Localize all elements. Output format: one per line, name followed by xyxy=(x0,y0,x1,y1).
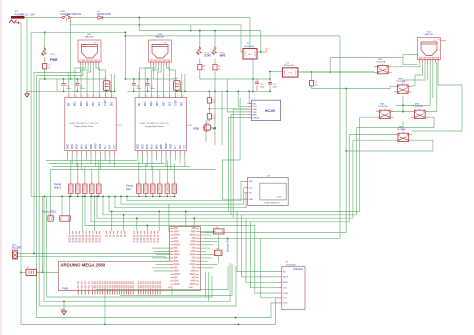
svg-text:TXD: TXD xyxy=(252,112,257,114)
resistor R4 xyxy=(207,98,216,104)
wire xyxy=(402,121,404,131)
junction xyxy=(214,30,216,32)
wire xyxy=(173,164,175,181)
wire xyxy=(205,272,207,297)
svg-text:GND: GND xyxy=(168,287,173,289)
junction xyxy=(82,196,84,198)
wire xyxy=(348,135,350,222)
junction xyxy=(133,90,135,92)
relay K2 xyxy=(283,62,298,77)
svg-text:STAT: STAT xyxy=(205,54,212,58)
wire colA pin xyxy=(154,270,171,272)
junction xyxy=(345,88,347,90)
svg-text:G5LE-14X: G5LE-14X xyxy=(284,65,295,67)
svg-text:EN: EN xyxy=(252,103,255,105)
wire xyxy=(125,78,176,80)
junction xyxy=(214,90,216,92)
wire xyxy=(412,140,433,151)
wire xyxy=(50,170,55,216)
svg-text:M1B: M1B xyxy=(147,144,149,149)
junction xyxy=(76,90,78,92)
wire colB pin xyxy=(199,260,208,262)
wire xyxy=(71,155,73,164)
junction xyxy=(184,90,186,92)
svg-text:STEP: STEP xyxy=(176,100,178,106)
capacitor C7 xyxy=(103,78,110,90)
fan module SG1 xyxy=(78,34,101,65)
junction xyxy=(214,127,216,129)
svg-text:Decay (DEC): Decay (DEC) xyxy=(42,210,56,213)
wire xyxy=(104,155,106,161)
wire xyxy=(261,238,278,297)
svg-text:BT: BT xyxy=(213,126,217,130)
svg-text:+12: +12 xyxy=(437,39,440,41)
junction xyxy=(102,196,104,198)
wire xyxy=(208,91,210,97)
svg-text:SLP: SLP xyxy=(110,144,112,149)
svg-text:FAN-3W: FAN-3W xyxy=(85,36,94,39)
wire xyxy=(87,65,91,94)
wire xyxy=(312,86,395,88)
wire xyxy=(206,119,209,123)
svg-text:LED1: LED1 xyxy=(50,54,56,56)
wire xyxy=(139,31,260,52)
wire xyxy=(71,25,244,52)
wire xyxy=(75,65,86,94)
label Decay (DEC) xyxy=(54,182,62,189)
wire K2 to SW2 xyxy=(298,71,374,73)
wire xyxy=(138,161,140,181)
junction xyxy=(237,90,239,92)
svg-text:100u: 100u xyxy=(150,88,154,90)
svg-text:TS-1187A: TS-1187A xyxy=(397,128,407,131)
svg-text:SCL: SCL xyxy=(249,193,253,195)
junction xyxy=(311,71,313,73)
wire xyxy=(138,72,140,94)
wire xyxy=(174,155,176,161)
wire xyxy=(238,91,247,106)
wire xyxy=(85,196,255,225)
svg-text:TST: TST xyxy=(114,144,116,149)
wire xyxy=(353,139,395,141)
wire colA pin xyxy=(152,267,171,269)
junction xyxy=(147,78,149,80)
junction xyxy=(209,108,211,110)
switch SW4 xyxy=(376,104,394,119)
svg-text:6: 6 xyxy=(171,96,172,98)
wire xyxy=(68,72,70,94)
wire xyxy=(114,155,116,167)
svg-text:HC-05: HC-05 xyxy=(265,109,275,113)
wire xyxy=(18,252,171,254)
wire xyxy=(218,235,220,251)
svg-text:OLED 128x64 I2C: OLED 128x64 I2C xyxy=(264,202,280,204)
wire xyxy=(70,19,72,80)
svg-text:FLT: FLT xyxy=(105,145,107,150)
wire xyxy=(171,288,173,295)
junction xyxy=(248,90,250,92)
svg-text:SLP: SLP xyxy=(180,144,182,149)
jumper JP8 xyxy=(214,227,225,234)
wire xyxy=(146,155,148,167)
junction xyxy=(269,78,271,80)
wire colA pin xyxy=(154,250,171,252)
junction xyxy=(94,196,96,198)
wire xyxy=(81,155,83,170)
wire xyxy=(298,71,374,73)
svg-text:MS2: MS2 xyxy=(81,101,83,106)
junction xyxy=(133,78,135,80)
junction xyxy=(84,196,86,198)
jumper group Decay (DEC) xyxy=(69,181,102,197)
svg-text:(DEC): (DEC) xyxy=(54,185,61,189)
wire xyxy=(432,63,434,99)
wire xyxy=(92,65,94,94)
jumper group Decay (Ab) xyxy=(137,181,177,197)
svg-text:M2B: M2B xyxy=(161,144,163,149)
wire xyxy=(227,79,247,112)
wire xyxy=(85,155,87,161)
svg-text:RXD: RXD xyxy=(252,115,257,117)
wire xyxy=(270,71,283,73)
junction xyxy=(125,78,127,80)
svg-text:POWER 12 - 24V: POWER 12 - 24V xyxy=(15,12,36,16)
wire xyxy=(95,155,97,167)
junction xyxy=(110,90,112,92)
wire xyxy=(120,264,232,295)
ground xyxy=(61,309,67,314)
wire xyxy=(229,118,248,212)
svg-text:PWM: PWM xyxy=(62,287,68,290)
wire xyxy=(157,65,161,94)
svg-text:SLP: SLP xyxy=(169,101,171,106)
wire xyxy=(98,161,100,181)
wire xyxy=(70,161,72,181)
svg-text:HOME CNC/MECH v1 TMC2130: HOME CNC/MECH v1 TMC2130 xyxy=(69,123,99,125)
pin column B xyxy=(188,227,198,289)
wire xyxy=(136,218,138,231)
wire xyxy=(76,155,78,167)
svg-text:100n: 100n xyxy=(137,88,141,90)
junction xyxy=(108,196,110,198)
svg-text:1: 1 xyxy=(70,96,71,98)
label Decay (Abl) xyxy=(226,237,230,252)
wire xyxy=(403,54,418,56)
wire xyxy=(360,116,376,118)
wire xyxy=(346,150,433,152)
label LED4 STAT xyxy=(205,53,212,58)
wire xyxy=(359,117,361,211)
junction xyxy=(44,31,46,33)
wire colB pin xyxy=(199,234,212,236)
wire xyxy=(137,155,139,161)
wire colB pin xyxy=(199,250,207,252)
svg-text:M2B: M2B xyxy=(91,144,93,149)
ground 2 xyxy=(25,91,30,97)
junction xyxy=(77,196,79,198)
wire xyxy=(223,98,245,199)
svg-text:MISO: MISO xyxy=(283,282,289,284)
junction xyxy=(120,196,122,198)
junction xyxy=(260,51,262,53)
wire xyxy=(47,196,212,297)
jumper group 2 Decay (DEC) xyxy=(42,210,70,221)
switch SW2 xyxy=(374,59,392,74)
svg-text:MS3: MS3 xyxy=(157,101,159,106)
svg-text:VDD: VDD xyxy=(142,144,144,149)
svg-text:USB: USB xyxy=(193,126,199,130)
svg-text:STEP: STEP xyxy=(105,100,107,106)
junction xyxy=(125,35,127,37)
svg-text:DIR: DIR xyxy=(182,102,184,106)
switch SW3 xyxy=(394,78,412,93)
wire xyxy=(121,188,244,204)
junction xyxy=(114,196,116,198)
junction xyxy=(84,196,86,198)
wire xyxy=(84,167,86,181)
wire xyxy=(218,256,220,263)
svg-text:BUZZER: BUZZER xyxy=(12,248,22,250)
LED LED4 xyxy=(195,46,204,55)
wire xyxy=(163,65,165,94)
IC U2 stepper driver xyxy=(135,94,193,155)
wire xyxy=(97,196,353,218)
wire xyxy=(39,78,106,80)
pin column A xyxy=(168,227,180,289)
wire xyxy=(185,211,187,227)
svg-text:G5LE-14X: G5LE-14X xyxy=(244,46,255,48)
junction xyxy=(111,211,113,213)
capacitor C9 xyxy=(146,79,155,91)
wire xyxy=(152,167,154,181)
junction xyxy=(98,196,100,198)
svg-text:ARDUINO MEGA 2560: ARDUINO MEGA 2560 xyxy=(60,263,105,268)
wire xyxy=(44,69,46,80)
svg-text:RST: RST xyxy=(93,101,95,106)
junction xyxy=(329,71,331,73)
pin header grid 3 xyxy=(133,231,159,242)
junction xyxy=(91,196,93,198)
wire xyxy=(252,59,254,91)
IC U1 stepper driver xyxy=(65,94,123,155)
pin header grid 1 xyxy=(68,231,100,242)
wire xyxy=(37,76,278,318)
svg-text:VCC: VCC xyxy=(283,298,288,300)
relay K1 xyxy=(243,43,257,59)
wire xyxy=(349,134,394,136)
wire xyxy=(214,59,216,65)
junction xyxy=(138,196,140,198)
wire xyxy=(140,65,151,79)
svg-text:F3: F3 xyxy=(434,40,436,42)
buzzer SG2 xyxy=(12,245,22,260)
svg-text:M2A: M2A xyxy=(155,144,158,149)
wire xyxy=(69,196,71,231)
svg-text:5: 5 xyxy=(94,96,95,98)
svg-text:(Ab): (Ab) xyxy=(126,187,131,191)
junction xyxy=(152,196,154,198)
label LED1 xyxy=(50,54,56,56)
resistor R1 xyxy=(43,64,52,70)
wire xyxy=(427,117,434,127)
wire xyxy=(81,65,88,94)
wire xyxy=(190,25,192,31)
junction xyxy=(252,90,254,92)
svg-text:EN: EN xyxy=(139,103,141,107)
wire xyxy=(99,155,101,170)
wire xyxy=(142,155,144,164)
wire xyxy=(170,155,172,170)
wire xyxy=(402,55,404,58)
svg-text:M1A: M1A xyxy=(151,144,154,149)
wire xyxy=(199,71,201,79)
svg-text:SG2: SG2 xyxy=(12,245,17,247)
wire xyxy=(111,74,113,94)
junction xyxy=(146,225,148,227)
svg-text:MPS: MPS xyxy=(220,54,226,58)
wire xyxy=(25,17,60,19)
wire xyxy=(63,301,65,311)
svg-text:Stepper Motor Driver: Stepper Motor Driver xyxy=(75,125,94,128)
svg-text:VCC: VCC xyxy=(252,106,257,108)
wire xyxy=(104,288,106,324)
label BT xyxy=(213,126,217,130)
wire colB pin xyxy=(199,254,216,256)
wire xyxy=(111,211,113,231)
svg-text:SG1: SG1 xyxy=(87,34,92,36)
svg-text:FAN-3W: FAN-3W xyxy=(156,36,165,39)
wire xyxy=(104,18,250,49)
wire xyxy=(152,65,154,79)
junction xyxy=(145,196,147,198)
wire xyxy=(103,196,357,214)
junction xyxy=(125,31,127,33)
wire colA pin xyxy=(152,257,171,259)
junction xyxy=(70,196,72,198)
wire xyxy=(166,65,169,94)
wire xyxy=(18,257,166,259)
svg-text:F1: F1 xyxy=(94,43,96,45)
wire xyxy=(269,72,271,92)
svg-text:6: 6 xyxy=(101,96,102,98)
junction xyxy=(185,211,187,213)
switch SW5 xyxy=(411,104,429,119)
junction xyxy=(114,90,116,92)
resistor R9 xyxy=(213,65,222,71)
wire xyxy=(37,271,59,273)
svg-text:5: 5 xyxy=(165,96,166,98)
pin group analog xyxy=(112,281,135,294)
wire xyxy=(214,31,216,50)
connector JP1 POWER 12-24V xyxy=(9,11,35,24)
wire xyxy=(208,272,210,301)
wire xyxy=(199,59,201,65)
wire xyxy=(356,128,358,215)
display U3 OLED xyxy=(244,175,288,205)
svg-text:SG4: SG4 xyxy=(427,31,432,33)
wire xyxy=(91,196,349,221)
junction xyxy=(199,30,201,32)
wire xyxy=(146,226,148,232)
wire colB pin xyxy=(199,264,218,266)
junction xyxy=(44,196,46,198)
wire xyxy=(201,89,347,233)
junction xyxy=(138,17,140,19)
junction xyxy=(139,78,141,80)
switch SW1 POWER SWITCH xyxy=(60,11,82,21)
wire xyxy=(96,266,228,290)
wire xyxy=(211,127,215,129)
junction xyxy=(166,196,168,198)
wire xyxy=(158,211,160,231)
wire xyxy=(96,65,99,94)
svg-text:Stepper Motor Driver: Stepper Motor Driver xyxy=(145,125,164,128)
junction xyxy=(44,78,46,80)
wire xyxy=(193,218,195,227)
junction xyxy=(138,24,140,26)
wire colB pin xyxy=(199,231,216,233)
wire xyxy=(233,109,247,218)
svg-text:Decay (Abl): Decay (Abl) xyxy=(226,237,230,252)
svg-text:FLT: FLT xyxy=(175,145,177,150)
svg-text:3: 3 xyxy=(82,96,83,98)
LED LED5 xyxy=(210,46,219,55)
wire xyxy=(214,79,216,145)
svg-text:MS2: MS2 xyxy=(151,101,153,106)
svg-text:1k: 1k xyxy=(203,68,205,70)
svg-text:MS1: MS1 xyxy=(75,101,77,106)
svg-text:2: 2 xyxy=(146,96,147,98)
wire xyxy=(412,63,462,132)
pin group digital xyxy=(92,281,111,294)
svg-text:SQW: SQW xyxy=(283,293,288,295)
wire colB pin xyxy=(199,237,208,239)
wire xyxy=(249,91,251,103)
junction xyxy=(63,300,65,302)
junction xyxy=(126,196,128,198)
svg-text:F2: F2 xyxy=(165,43,167,45)
svg-text:M1A: M1A xyxy=(80,144,83,149)
svg-text:MOSI: MOSI xyxy=(283,277,289,279)
wire xyxy=(73,17,98,19)
svg-text:STATE: STATE xyxy=(252,116,259,119)
svg-text:4: 4 xyxy=(159,96,160,98)
wire xyxy=(205,133,207,142)
junction xyxy=(159,196,161,198)
junction xyxy=(158,211,160,213)
resistor R3 xyxy=(309,81,318,87)
svg-text:DS3234: DS3234 xyxy=(294,267,304,271)
svg-text:VMOT: VMOT xyxy=(96,142,98,149)
IC U7 DS3234 xyxy=(278,261,306,309)
svg-text:HOME CNC/MECH v1 TMC2130: HOME CNC/MECH v1 TMC2130 xyxy=(139,123,169,125)
wire xyxy=(403,63,430,106)
wire xyxy=(214,71,216,79)
svg-text:DS3234M: DS3234M xyxy=(286,264,296,266)
svg-text:Decay: Decay xyxy=(54,182,62,186)
svg-text:TS-1187A: TS-1187A xyxy=(413,105,423,108)
svg-text:10k: 10k xyxy=(212,102,215,104)
svg-text:MS1: MS1 xyxy=(145,101,147,106)
wire xyxy=(37,65,83,76)
wire xyxy=(208,103,210,114)
wire xyxy=(91,170,93,181)
svg-text:DIR: DIR xyxy=(111,102,113,106)
wire xyxy=(41,196,43,272)
wire xyxy=(44,196,230,301)
wire xyxy=(166,161,168,181)
wire xyxy=(44,57,46,64)
